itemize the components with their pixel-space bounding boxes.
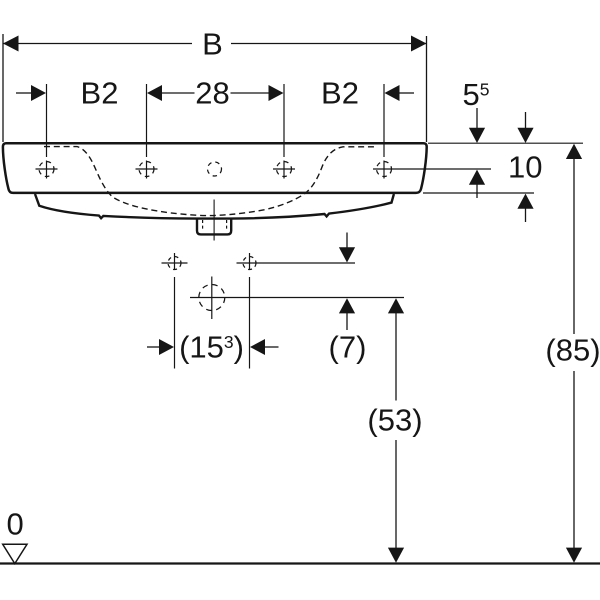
tap hole 2 (dashed circle + crosshair) <box>136 162 158 177</box>
drain trap hole (large dashed circle + centerlines) <box>190 277 404 320</box>
dimension (85): vertical line lower segment with down arrow <box>573 371 575 548</box>
dimension (53): vertical line upper segment with up arrow <box>388 298 404 313</box>
dimension (7): upper arrow (down) at mounting line <box>346 233 348 249</box>
dimension B2 right: outside arrow tail <box>399 92 415 94</box>
dimension 28: right arrowhead pointing right <box>269 85 284 101</box>
washbasin rim outline (front view) <box>3 143 427 193</box>
svg-text:55: 55 <box>463 77 490 112</box>
dimension 5^5: upper arrow (down) <box>476 108 478 129</box>
dimension 10: upper arrow (down) <box>525 112 527 129</box>
dimension (85): vertical line upper segment with up arrow <box>566 144 582 159</box>
dimension 28: right tail <box>231 92 270 94</box>
row2 extension line at x=46.5 (left tap hole axis) <box>46 84 48 157</box>
dimension B: dimension line left segment <box>3 43 192 45</box>
datum triangle symbol <box>3 544 27 563</box>
svg-text:(85): (85) <box>545 333 600 368</box>
dimension B2 left: outside arrow tail <box>16 92 32 94</box>
svg-text:B: B <box>202 27 223 62</box>
drain outlet hidden edges (dashed) <box>202 220 204 231</box>
dimension (53): vertical line lower segment with down arrow <box>395 440 397 548</box>
svg-text:(53): (53) <box>367 403 422 438</box>
washbasin lower body (apron below rim) <box>35 194 394 219</box>
mounting hole axis extension lines down to (15^3) row <box>174 277 176 369</box>
dimension 5^5: lower arrow (up) <box>469 170 485 185</box>
mounting hole left (dashed circle + crosshair) <box>162 253 188 270</box>
dimension B2 right: arrowhead pointing left <box>385 85 400 101</box>
drain outlet centerline <box>213 200 215 241</box>
dimension B: left arrowhead <box>3 36 19 52</box>
tap hole 1 (dashed circle + crosshair) <box>36 162 58 177</box>
dimension 28: left arrowhead pointing left <box>147 85 162 101</box>
basin bowl hidden contour (dashed) <box>44 147 377 216</box>
svg-text:10: 10 <box>508 150 542 185</box>
drain outlet box <box>197 219 231 235</box>
tap hole 3 (dashed circle + crosshair) <box>273 162 295 177</box>
tap hole center knockout (dashed circle) <box>208 162 222 176</box>
row2 extension line at x=146.5 (inner left tap hole axis) <box>146 84 148 157</box>
dimension (7): lower arrow (up) at trap line <box>339 298 355 313</box>
svg-text:B2: B2 <box>81 76 119 111</box>
svg-text:0: 0 <box>7 507 24 542</box>
dimension B2 left: arrowhead pointing right <box>31 85 46 101</box>
dimension B: left extension line <box>2 34 4 142</box>
top surface extension line (right) <box>428 142 583 144</box>
svg-text:(7): (7) <box>329 330 367 365</box>
dimension B: right extension line <box>426 36 428 142</box>
dimension B: right arrowhead <box>411 36 427 52</box>
row2 extension line at x=384 (right tap hole axis) <box>383 84 385 157</box>
tap hole 4 (dashed circle + crosshair), centerline extended right <box>373 162 491 177</box>
dimension (15^3): left outside arrow <box>147 346 161 348</box>
svg-text:28: 28 <box>195 76 229 111</box>
svg-text:(153): (153) <box>179 330 244 365</box>
floor line <box>0 562 600 564</box>
dimension (15^3): right outside arrow <box>250 339 265 355</box>
rim bottom extension line (right) <box>423 192 534 194</box>
dimension B: dimension line right segment <box>231 43 427 45</box>
dimension 10: lower arrow (up) <box>517 194 533 209</box>
dimension 28: left tail <box>161 92 195 94</box>
svg-text:B2: B2 <box>321 76 359 111</box>
mounting hole right (dashed circle + crosshair) <box>237 253 356 270</box>
row2 extension line at x=284 (inner right tap hole axis) <box>283 84 285 157</box>
